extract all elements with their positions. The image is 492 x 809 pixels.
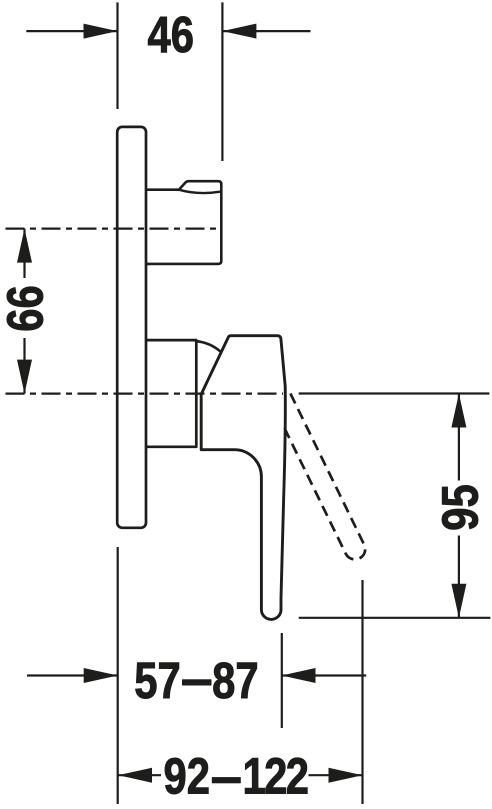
dimension line 95 upper segment [458,394,460,481]
arrowhead 95 bottom (points down) [451,584,466,618]
dimension line 66 upper segment [23,229,25,278]
arrowhead 57-87 right (points left) [282,668,316,683]
extension line plate left edge (bottom) [117,547,119,804]
dimension line 66 lower segment [23,338,25,394]
dimension line 57-87 left segment [27,674,118,676]
valve body top connector outline [146,181,221,264]
centerline upper (valve axis) [6,228,222,230]
svg-text:66: 66 [0,285,54,332]
connector rim curve [179,190,222,193]
dimension line 57-87 right tail [282,674,367,676]
arrowhead 46 left (points right) [84,24,118,39]
handle escutcheon [146,340,196,447]
extension line lever right edge (bottom) [281,633,283,728]
arrowhead 66 bottom (points down) [17,360,32,394]
handle dome curve [197,341,222,352]
dimension line 46 left segment [26,30,117,32]
svg-text:57: 57 [134,652,181,709]
svg-text:87: 87 [212,652,259,709]
lever handle open position (dashed) [285,390,366,559]
arrowhead 66 top (points up) [17,229,32,263]
svg-text:46: 46 [148,6,195,63]
centerline lower (cartridge axis) [6,393,284,395]
svg-text:95: 95 [431,484,488,531]
extension line 95 bottom horizontal [299,617,491,619]
extension line plate left edge (top) [116,2,118,109]
arrowhead 46 right (points left) [222,24,256,39]
arrowhead 92-122 left (points left) [118,768,152,783]
svg-text:92: 92 [163,747,210,804]
extension line dashed lever tip (bottom) [361,580,363,804]
svg-text:122: 122 [243,747,309,804]
arrowhead 57-87 left (points right) [84,668,118,683]
extension line connector front face (top) [221,2,223,161]
arrowhead 92-122 right (points right) [329,768,363,783]
dimension line 92-122 left segment [118,774,161,776]
dimension line 95 lower segment [458,536,460,618]
dimension line 92-122 right segment [309,774,363,776]
extension line 95 top (solid over centerline) [299,392,490,394]
arrowhead 95 top (points up) [451,394,466,428]
dimension line 46 right tail [222,30,310,32]
wall plate (escutcheon plate) [117,127,146,528]
lever handle (closed position) [201,336,285,620]
